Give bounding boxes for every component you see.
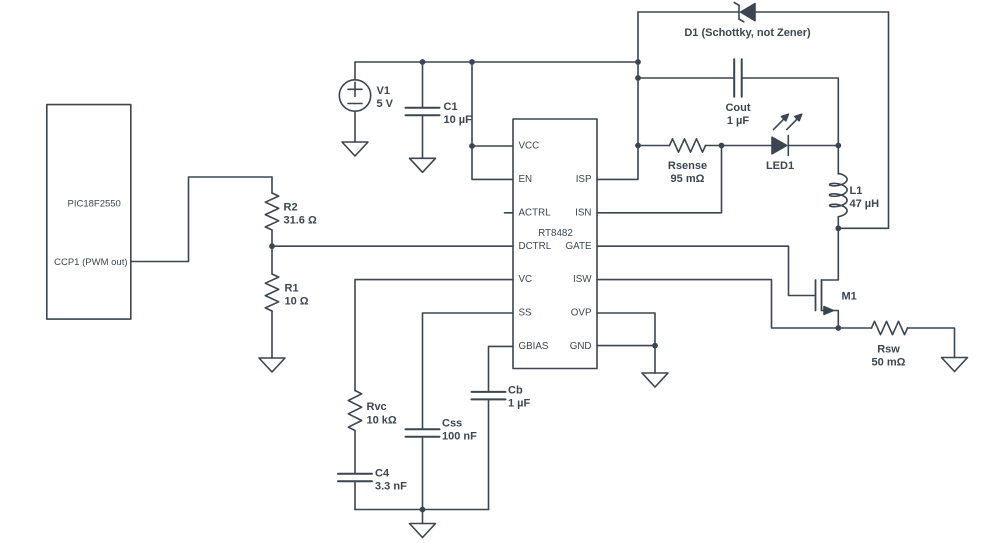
svg-text:Css: Css: [442, 418, 462, 430]
wire LED cathode to node: [788, 145, 838, 147]
capacitor C1: [406, 107, 440, 109]
svg-text:DCTRL: DCTRL: [519, 241, 552, 252]
resistor R2: [265, 193, 278, 230]
resistor Rsw: [872, 321, 908, 334]
capacitor Cb: [472, 391, 506, 393]
svg-text:M1: M1: [842, 291, 857, 303]
wire C4 bottom: [354, 482, 356, 510]
junction node C1 top: [420, 59, 426, 65]
wire right vertical: [838, 12, 888, 228]
svg-text:CCP1 (PWM out): CCP1 (PWM out): [54, 257, 127, 268]
wire ISP: [597, 12, 638, 179]
svg-text:ACTRL: ACTRL: [519, 207, 552, 218]
svg-text:R1: R1: [285, 283, 299, 295]
wire GND pin: [597, 345, 655, 347]
svg-text:L1: L1: [850, 185, 863, 197]
svg-text:Rvc: Rvc: [367, 401, 387, 413]
junction node LED cathode: [835, 143, 841, 149]
svg-text:GATE: GATE: [566, 241, 592, 252]
svg-text:VCC: VCC: [519, 141, 540, 152]
wire D1 right segment: [755, 11, 889, 13]
resistor R1: [265, 274, 278, 311]
ground Rsw: [942, 358, 968, 372]
junction node OVP GND: [652, 343, 658, 349]
junction node Cout left: [635, 75, 641, 81]
wire R2 bottom to node: [271, 230, 273, 246]
svg-text:ISW: ISW: [573, 274, 592, 285]
svg-text:3.3 nF: 3.3 nF: [375, 481, 407, 493]
diode D1 schottky: [741, 4, 755, 21]
wire DCTRL: [272, 245, 513, 247]
wire C1 bottom to ground: [422, 116, 424, 159]
wire Rvc to C4: [354, 431, 356, 474]
wire node to L1 top: [837, 146, 839, 175]
svg-text:Cb: Cb: [508, 385, 523, 397]
transistor M1: [815, 280, 817, 311]
wire Css bottom: [422, 437, 424, 509]
svg-text:GND: GND: [570, 341, 592, 352]
wire GBIAS: [489, 346, 514, 391]
wire node to R1 top: [271, 246, 273, 274]
svg-text:Rsw: Rsw: [877, 344, 900, 356]
junction node M1 source: [835, 325, 841, 331]
svg-text:1 µF: 1 µF: [508, 398, 531, 410]
junction node Rsense right: [719, 143, 725, 149]
ground C1: [410, 158, 436, 172]
svg-text:Rsense: Rsense: [668, 160, 707, 172]
svg-text:ISP: ISP: [576, 174, 592, 185]
wire GATE: [597, 246, 816, 295]
svg-text:D1 (Schottky, not Zener): D1 (Schottky, not Zener): [684, 27, 811, 39]
svg-text:Cout: Cout: [725, 102, 750, 114]
svg-text:95 mΩ: 95 mΩ: [671, 173, 705, 185]
MCU box PIC18F2550: [47, 105, 131, 320]
svg-text:V1: V1: [377, 85, 390, 97]
svg-text:C1: C1: [444, 101, 458, 113]
svg-text:50 mΩ: 50 mΩ: [872, 357, 906, 369]
junction node D1 left top rail: [635, 59, 641, 65]
svg-text:SS: SS: [519, 308, 533, 319]
resistor Rsense: [670, 139, 706, 152]
wire node to M1 drain: [822, 228, 839, 280]
svg-text:VC: VC: [519, 274, 533, 285]
IC U1 RT8482 box: [513, 119, 597, 369]
capacitor Css: [406, 428, 440, 430]
ground bottom rail: [410, 524, 436, 538]
wire D1 left segment: [638, 11, 739, 13]
svg-text:GBIAS: GBIAS: [519, 341, 549, 352]
ground R1: [259, 358, 285, 372]
wire Rsense right: [706, 145, 722, 147]
pin stub ACTRL: [505, 212, 514, 214]
wire GND to ground: [654, 346, 656, 373]
wire bottom rail: [355, 509, 489, 511]
wire VC: [355, 280, 513, 391]
wire ISW: [597, 280, 838, 328]
capacitor C4: [338, 473, 372, 475]
svg-text:RT8482: RT8482: [538, 228, 573, 239]
svg-text:31.6 Ω: 31.6 Ω: [284, 215, 317, 227]
svg-text:10 µF: 10 µF: [444, 114, 473, 126]
wire Rsense left: [638, 145, 670, 147]
svg-text:PIC18F2550: PIC18F2550: [68, 199, 121, 210]
svg-text:47 µH: 47 µH: [850, 198, 880, 210]
wire R1 bottom to ground: [271, 311, 273, 358]
svg-text:EN: EN: [519, 174, 533, 185]
wire CCP1 to R2 top: [131, 177, 272, 262]
ground IC: [642, 373, 668, 387]
voltage source V1: [339, 80, 370, 111]
junction node bottom rail: [420, 507, 426, 513]
svg-text:C4: C4: [375, 468, 390, 480]
junction node R2 R1: [269, 243, 275, 249]
capacitor Cout: [733, 59, 735, 97]
LED LED1: [772, 137, 787, 154]
wire ISN: [597, 146, 722, 213]
wire M1 source to Rsw: [838, 327, 871, 329]
wire SS: [423, 313, 514, 429]
svg-text:OVP: OVP: [571, 308, 592, 319]
wire VCC stub: [472, 145, 513, 147]
svg-text:5 V: 5 V: [377, 98, 394, 110]
wire EN vertical: [472, 62, 513, 179]
junction node EN vertical top: [469, 59, 475, 65]
svg-text:ISN: ISN: [575, 207, 591, 218]
svg-text:R2: R2: [284, 202, 298, 214]
wire Rsw right to ground: [908, 328, 955, 358]
svg-text:1 µF: 1 µF: [727, 115, 750, 127]
svg-text:LED1: LED1: [766, 160, 794, 172]
wire V1 top: [354, 62, 356, 80]
wire L1 bottom to node: [837, 217, 839, 229]
svg-text:10 kΩ: 10 kΩ: [367, 415, 397, 427]
wire Cb bottom: [488, 400, 490, 510]
inductor L1: [830, 173, 848, 216]
wire to LED anode: [722, 145, 773, 147]
wire R2 top stub: [271, 177, 273, 193]
wire OVP: [597, 313, 655, 346]
svg-text:100 nF: 100 nF: [442, 431, 477, 443]
wire V1 bottom to ground: [354, 111, 356, 142]
junction node L1 bottom: [835, 225, 841, 231]
svg-text:10 Ω: 10 Ω: [285, 296, 309, 308]
wire Cout left: [638, 77, 734, 79]
wire top rail: [355, 61, 638, 63]
wire Cout right: [742, 78, 839, 146]
resistor Rvc: [348, 391, 361, 431]
junction node Rsense left: [635, 143, 641, 149]
junction node VCC: [469, 143, 475, 149]
wire C1 top: [422, 62, 424, 107]
ground V1: [342, 142, 368, 156]
